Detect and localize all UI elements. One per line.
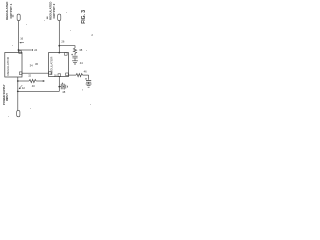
capacitor C1 plus sign [71, 54, 73, 56]
arrowhead on rail-1 [43, 80, 45, 82]
svg-text:34: 34 [30, 64, 33, 68]
label: REGULATED OUTPUT 1 [5, 1, 13, 20]
resistor R1 [29, 79, 36, 82]
U2 pin square (bottom-right) [66, 73, 69, 76]
wire rail-2 (ground rail) [18, 90, 60, 92]
svg-text:38: 38 [79, 48, 82, 52]
wire branch to snubber [59, 46, 75, 48]
svg-text:REGULATOR: REGULATOR [6, 56, 10, 75]
ref 34 label [30, 64, 33, 68]
ref 20 speck [12, 15, 13, 17]
wire pin-to-pin rail [22, 72, 49, 74]
U2 pin square (top-right) [65, 53, 68, 56]
node A (junction output1) [18, 49, 20, 51]
regulator U1 [5, 53, 22, 78]
ref 26 label near output2 wire [61, 39, 64, 43]
node F (cap branch) [58, 86, 60, 88]
ref 22 speck [47, 17, 48, 20]
ref 16 label near output1 wire [20, 37, 23, 41]
svg-text:48: 48 [62, 90, 65, 94]
ref 42 label [22, 86, 25, 90]
ref 38 label [79, 48, 82, 52]
svg-text:OUTPUT 2: OUTPUT 2 [52, 3, 56, 18]
ref 42 leader arrow to power wire [19, 85, 22, 89]
ref 32 label [28, 74, 31, 77]
ref 24 arrowhead [31, 49, 33, 51]
wire output2 vertical [58, 21, 60, 53]
resistor R3 [76, 74, 83, 77]
U1 pin square (top, input from output wire) [19, 51, 22, 54]
ref 48 label [62, 90, 65, 94]
terminal T2 (power supply input) [17, 110, 20, 116]
svg-text:36: 36 [35, 62, 38, 66]
svg-text:24: 24 [34, 48, 37, 52]
wire U2 bottom to ground rail [58, 76, 60, 91]
svg-text:OUTPUT 1: OUTPUT 1 [9, 3, 13, 18]
wire branch to C3 [59, 86, 61, 88]
U2 pin square (bottom-left, input) [49, 72, 52, 75]
svg-text:16: 16 [20, 37, 23, 41]
svg-text:42: 42 [22, 86, 25, 90]
capacitor C2 plus sign [85, 78, 87, 80]
label: FIG. 3 [81, 10, 87, 24]
U1 pin square (bottom-right) [19, 72, 22, 75]
wire rail-1 [18, 80, 29, 82]
node C (power junction 2 / ground rail) [17, 91, 19, 93]
ref 44 label [80, 61, 83, 65]
node B (power junction 1) [17, 80, 19, 82]
ref 36 label [35, 62, 38, 66]
capacitor C2 [86, 81, 91, 83]
wire output2 rail right [69, 74, 77, 76]
svg-text:26: 26 [61, 39, 64, 43]
capacitor C3 (vertical plates) [61, 84, 63, 89]
svg-text:40: 40 [32, 84, 35, 88]
regulator U2 [49, 53, 69, 77]
ref 46 label [84, 70, 87, 74]
svg-text:46: 46 [84, 70, 87, 74]
ref 40 label under R1 [32, 84, 35, 88]
U2 pin number 18 [54, 74, 57, 77]
node E (output2 at U2 top) [58, 52, 60, 54]
svg-text:INPUT: INPUT [5, 93, 9, 101]
U2 pin square (bottom) [58, 74, 61, 77]
ref 24 label [34, 48, 37, 52]
svg-text:FIG. 3: FIG. 3 [81, 10, 87, 24]
wire power vertical [17, 77, 19, 110]
wire corner down [88, 75, 90, 80]
terminal T3 (regulated output 2) [58, 14, 61, 21]
scan speckles [8, 12, 91, 117]
ground GND1 [72, 58, 78, 64]
capacitor C3 plus sign [62, 83, 64, 85]
wire branch at node A [19, 49, 32, 51]
ground GND3 (sideways) [64, 84, 67, 90]
wire output1 vertical [18, 21, 20, 53]
ref 12 tiny mark at right edge [91, 33, 93, 37]
ground GND2 [86, 84, 92, 87]
label: REGULATED OUTPUT 2 [49, 1, 57, 20]
svg-text:44: 44 [80, 61, 83, 65]
resistor R2 (vertical) [73, 48, 76, 55]
capacitor C1 [72, 56, 77, 58]
node D (junction output2) [58, 45, 60, 47]
ref 16 leader arrow [20, 42, 24, 44]
label: POWER SUPPLY INPUT [2, 84, 9, 105]
svg-text:REGULATOR: REGULATOR [50, 56, 54, 75]
terminal T1 (regulated output 1) [17, 14, 20, 21]
